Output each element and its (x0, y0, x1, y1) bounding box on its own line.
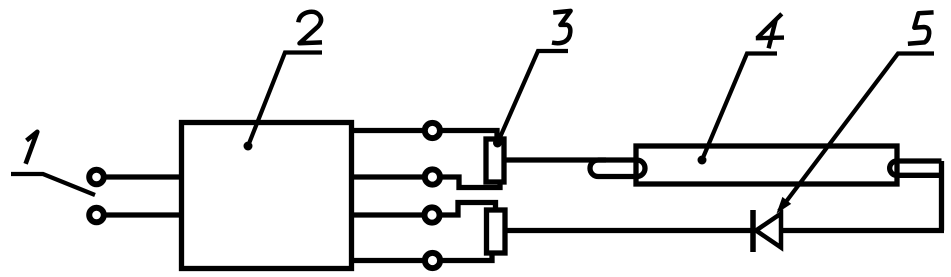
starter block 3 lower (487, 210, 506, 253)
junction ring on wire row 4 (425, 253, 440, 268)
diode 5 cathode bar (750, 210, 756, 252)
input terminal B (89, 208, 104, 223)
junction ring on wire row 2 (425, 169, 440, 184)
diode 5 triangle (756, 214, 781, 248)
leader dot on starter block (493, 139, 502, 148)
label 2 (298, 12, 322, 44)
lamp right electrode (890, 161, 942, 175)
wire row 1 (ballast to starter top) (352, 131, 498, 140)
wire terminal B to ballast (104, 212, 184, 217)
leader arrowhead for label 5 (777, 197, 792, 214)
leader line for label 1 (11, 174, 95, 195)
label 3 (552, 11, 571, 43)
leader dot on lamp (698, 156, 707, 165)
wire diode to right vertical (781, 228, 944, 233)
leader dot on ballast (244, 142, 253, 151)
wire starter lower to diode (505, 228, 753, 233)
lamp left electrode (590, 160, 645, 177)
wire row 4 (ballast to starter-bottom bottom) (352, 253, 493, 261)
leader line for label 3 (498, 51, 569, 143)
label 1 (26, 132, 38, 164)
label 5 (908, 12, 934, 43)
leader line for label 5 (779, 54, 934, 212)
wire lamp right end down (939, 161, 944, 231)
input terminal A (89, 170, 104, 185)
wire row 2 (ballast to starter-top bottom) (352, 177, 501, 188)
junction ring on wire row 3 (424, 207, 439, 222)
wire terminal A to ballast (104, 174, 184, 179)
leader line for label 4 (702, 54, 777, 161)
wire row 3 (ballast to starter-bottom top) (352, 203, 496, 216)
junction ring on wire row 1 (425, 123, 440, 138)
wire starter upper to lamp electrode (504, 157, 606, 162)
starter block 3 upper (486, 139, 504, 182)
lamp tube 4 (636, 146, 897, 184)
label 4 (756, 14, 784, 49)
ballast box 2 (182, 123, 352, 269)
leader line for label 2 (248, 53, 322, 147)
